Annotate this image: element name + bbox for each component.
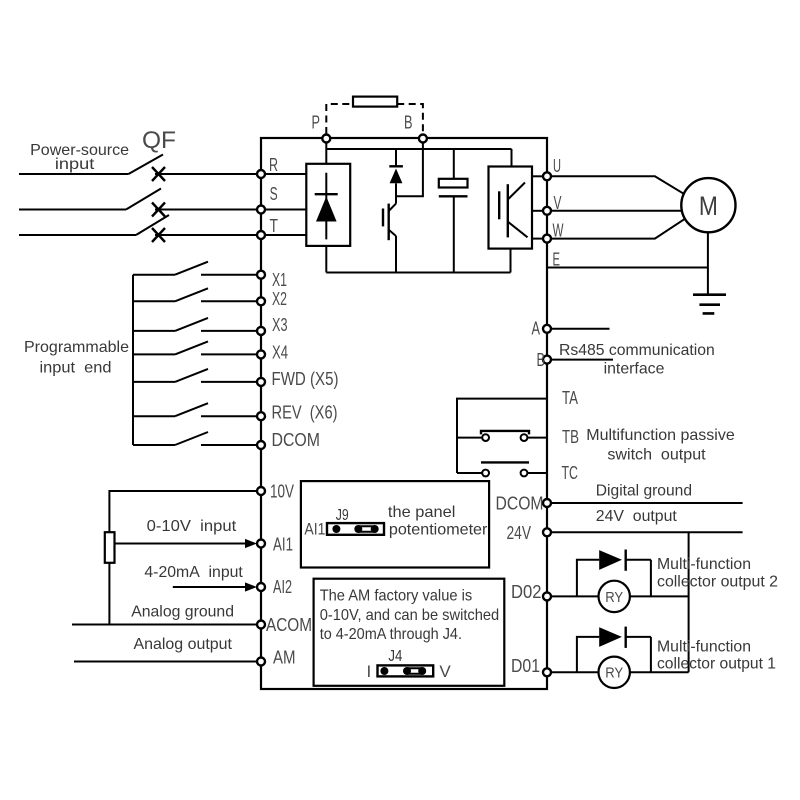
diode D01 cathode bar <box>625 627 627 648</box>
svg-text:Rs485 communication: Rs485 communication <box>559 342 715 359</box>
switch FWD <box>133 369 257 382</box>
terminal FWD <box>257 378 265 386</box>
inverter box U1 <box>489 167 533 249</box>
svg-text:X4: X4 <box>272 343 288 363</box>
main inverter enclosure box <box>261 138 547 689</box>
wire 24V output <box>551 531 743 533</box>
jumper J9 pin 1 <box>332 525 340 533</box>
svg-text:E: E <box>553 250 561 270</box>
svg-text:Programmable: Programmable <box>24 339 129 356</box>
wire motor to ground <box>707 232 709 294</box>
wire 24V drop to collector outputs <box>688 532 690 672</box>
terminal X3 <box>257 327 265 335</box>
svg-text:ACOM: ACOM <box>266 615 312 635</box>
relay RY 1 circle <box>599 657 630 688</box>
terminal U <box>543 172 551 180</box>
rectifier diode triangle <box>316 197 337 222</box>
svg-text:the panel: the panel <box>388 504 456 521</box>
wire DCOM digital ground <box>551 502 743 504</box>
arrowhead AI2 <box>245 582 257 591</box>
svg-text:J9: J9 <box>336 507 349 524</box>
terminal 24V <box>543 528 551 536</box>
terminal AM <box>257 658 265 666</box>
freewheel loop D02 <box>577 560 651 597</box>
wire TC left <box>457 472 482 474</box>
svg-text:TA: TA <box>562 388 578 408</box>
wire inverter to V <box>532 210 543 212</box>
svg-text:input end: input end <box>40 360 112 377</box>
svg-text:W: W <box>553 221 564 241</box>
capacitor positive plate <box>439 179 468 188</box>
contact TC circle left <box>482 470 489 477</box>
svg-text:D01: D01 <box>511 656 540 676</box>
DC- bus <box>326 272 510 274</box>
wire TB right <box>527 437 547 439</box>
switch X3 <box>133 318 257 331</box>
rectifier box <box>306 164 350 246</box>
svg-text:The AM factory value is: The AM factory value is <box>320 588 473 605</box>
breaker QF cross mark 3 <box>152 228 165 242</box>
svg-text:input: input <box>55 156 95 173</box>
svg-text:X3: X3 <box>272 315 288 335</box>
contact TC bar <box>481 461 529 463</box>
info box J9 panel potentiometer <box>301 481 489 567</box>
wire 3-phase input line 2 <box>19 209 126 211</box>
inverter top wire <box>511 149 513 167</box>
wire R to rectifier <box>265 173 306 175</box>
svg-text:FWD (X5): FWD (X5) <box>272 369 339 389</box>
svg-text:V: V <box>554 193 562 213</box>
wire D02 left <box>551 595 599 597</box>
svg-text:X1: X1 <box>272 270 287 290</box>
inverter IGBT body bar <box>507 184 509 237</box>
switch X4 <box>133 341 257 354</box>
svg-text:QF: QF <box>142 127 176 154</box>
wire brake IGBT emitter to DC- bus <box>395 236 397 273</box>
svg-text:24V output: 24V output <box>596 508 678 525</box>
wire TA <box>457 399 547 473</box>
diode D01 triangle <box>599 627 622 647</box>
transistor brake IGBT collector diagonal <box>389 204 396 211</box>
terminal DCOM right <box>543 499 551 507</box>
wire 3-phase input line 3 <box>19 234 136 236</box>
svg-text:4-20mA input: 4-20mA input <box>144 564 243 581</box>
wire TC right <box>527 472 547 474</box>
svg-text:V: V <box>439 662 451 681</box>
diode D02 triangle <box>599 550 622 570</box>
inverter IGBT collector diagonal <box>508 183 525 200</box>
potentiometer body <box>105 532 115 563</box>
contact TB circle right <box>521 434 528 441</box>
terminal A <box>543 325 551 333</box>
svg-text:0-10V, and can be switched: 0-10V, and can be switched <box>320 607 500 624</box>
jumper J9 pin 3 <box>371 525 379 533</box>
svg-text:switch output: switch output <box>607 447 706 464</box>
terminal T <box>257 231 265 239</box>
info box J4 AM note <box>314 579 505 686</box>
wire ACOM analog ground <box>72 624 257 626</box>
breaker QF cross mark 2 <box>152 203 165 217</box>
svg-text:Multi-function: Multi-function <box>657 639 751 656</box>
wire S input <box>155 209 257 211</box>
terminal B brake <box>419 135 427 143</box>
inverter bottom wire <box>510 249 512 273</box>
programmable input switch bus <box>132 275 134 445</box>
braking resistor dashed wire left <box>326 104 353 134</box>
jumper J4 link bars <box>407 668 422 673</box>
transistor brake IGBT emitter diagonal <box>389 230 396 236</box>
svg-text:R: R <box>269 155 278 175</box>
terminal 10V <box>257 487 265 495</box>
brake diode triangle <box>390 169 403 184</box>
svg-text:AI1: AI1 <box>273 535 293 555</box>
breaker QF blade 2 <box>126 189 161 210</box>
wire E earth <box>547 267 708 269</box>
capacitor top wire <box>453 149 455 179</box>
wire A rs485 <box>551 328 610 330</box>
wire inverter to W <box>532 238 543 240</box>
jumper J9 pin 2 <box>354 525 362 533</box>
svg-text:to 4-20mA through J4.: to 4-20mA through J4. <box>320 626 462 643</box>
diode D02 cathode bar <box>625 550 627 571</box>
transistor brake IGBT gate bar <box>382 209 384 227</box>
wire S to rectifier <box>265 209 306 211</box>
wire W to motor <box>551 219 685 239</box>
svg-text:Multi-function: Multi-function <box>657 556 751 573</box>
wire TB left <box>457 437 482 439</box>
svg-text:24V: 24V <box>507 523 532 543</box>
svg-text:Analog ground: Analog ground <box>131 604 234 621</box>
terminal AI2 <box>257 583 265 591</box>
terminal D01 <box>543 668 551 676</box>
wire brake diode to IGBT <box>395 183 397 203</box>
terminal P <box>322 135 330 143</box>
relay RY 2 circle <box>599 581 630 612</box>
svg-text:REV (X6): REV (X6) <box>272 403 338 423</box>
svg-text:AI1: AI1 <box>304 520 325 539</box>
wire AI2 analog input <box>173 586 247 588</box>
contact TB bar <box>481 431 529 435</box>
terminal AI1 <box>257 540 265 548</box>
svg-text:D02: D02 <box>511 582 542 602</box>
inverter IGBT emitter diagonal <box>508 222 528 238</box>
DC+ bus <box>326 148 511 150</box>
terminal D02 <box>543 592 551 600</box>
capacitor negative plate <box>439 195 468 197</box>
switch DCOM <box>133 432 257 445</box>
terminal V <box>543 207 551 215</box>
switch X1 <box>133 262 257 275</box>
terminal X1 <box>257 271 265 279</box>
transistor brake IGBT body bar <box>388 204 390 241</box>
inverter IGBT gate bar <box>498 191 500 219</box>
brake diode cathode bar <box>389 165 403 167</box>
terminal B rs485 <box>543 356 551 364</box>
breaker QF blade 3 <box>136 215 169 235</box>
svg-text:potentiometer: potentiometer <box>389 522 488 539</box>
svg-text:AM: AM <box>273 648 296 668</box>
wire D01 left <box>551 671 599 673</box>
svg-text:RY: RY <box>605 665 623 682</box>
braking resistor dashed wire right <box>397 104 423 134</box>
svg-text:J4: J4 <box>388 648 402 665</box>
wire T input <box>155 234 257 236</box>
contact TB circle left <box>482 434 489 441</box>
wire V to motor <box>551 210 682 212</box>
svg-text:Digital ground: Digital ground <box>596 483 692 500</box>
wire inverter to U <box>532 175 543 177</box>
wire U to motor <box>551 176 684 194</box>
wire D02 right <box>630 595 689 597</box>
brake diode wire from DC+ <box>395 149 397 166</box>
potentiometer 10V wire <box>109 491 257 532</box>
wire R input <box>155 173 257 175</box>
svg-text:Analog output: Analog output <box>133 636 232 653</box>
jumper J4 pin 3 <box>418 667 426 675</box>
wire rectifier to DC- bus <box>325 246 327 273</box>
svg-text:I: I <box>367 662 372 681</box>
switch REV <box>133 403 257 416</box>
contact TC circle right <box>521 470 528 477</box>
arrowhead AI1 <box>245 539 257 548</box>
svg-text:X2: X2 <box>272 289 287 309</box>
svg-text:AI2: AI2 <box>273 577 292 597</box>
wire D01 right <box>630 671 689 673</box>
potentiometer bottom wire <box>108 563 110 625</box>
svg-text:U: U <box>553 156 561 176</box>
svg-text:RY: RY <box>605 589 623 606</box>
svg-text:P: P <box>312 113 321 133</box>
wire 3-phase input line 1 <box>19 173 129 175</box>
svg-text:TC: TC <box>562 463 579 483</box>
ground symbol <box>693 295 726 314</box>
terminal R <box>257 170 265 178</box>
svg-text:collector output 1: collector output 1 <box>657 656 776 673</box>
jumper J9 body <box>327 523 384 535</box>
terminal X2 <box>257 297 265 305</box>
wire AM analog output <box>74 661 257 663</box>
capacitor bottom wire <box>453 196 455 272</box>
freewheel loop D01 <box>577 637 651 672</box>
jumper J9 link bars <box>358 526 374 531</box>
svg-text:interface: interface <box>604 361 665 378</box>
svg-text:DCOM: DCOM <box>496 494 544 514</box>
rectifier diode cathode bar <box>315 193 338 195</box>
motor M circle <box>681 178 735 232</box>
jumper J4 body <box>378 665 434 676</box>
svg-text:M: M <box>699 191 718 221</box>
jumper J4 pin 2 <box>403 667 411 675</box>
braking resistor <box>353 97 397 107</box>
terminal REV <box>257 412 265 420</box>
jumper J4 pin 1 <box>380 667 388 675</box>
breaker QF blade 1 <box>129 155 164 175</box>
terminal W <box>543 235 551 243</box>
svg-text:B: B <box>537 350 546 370</box>
svg-text:collector output 2: collector output 2 <box>657 574 778 591</box>
wire T to rectifier <box>265 234 306 236</box>
wire B rs485 <box>551 359 613 361</box>
svg-text:DCOM: DCOM <box>272 430 321 450</box>
svg-text:TB: TB <box>562 427 579 447</box>
switch X2 <box>133 288 257 301</box>
wire AI1 analog input <box>115 543 248 545</box>
svg-text:0-10V input: 0-10V input <box>147 518 237 535</box>
svg-text:B: B <box>404 113 413 133</box>
rectifier diode axis <box>325 173 327 240</box>
svg-text:A: A <box>532 319 541 339</box>
svg-text:Multifunction passive: Multifunction passive <box>586 427 735 444</box>
breaker QF cross mark 1 <box>152 167 165 181</box>
wire B to brake chopper <box>396 143 423 197</box>
terminal X4 <box>257 350 265 358</box>
svg-text:S: S <box>270 184 278 204</box>
svg-text:10V: 10V <box>270 482 294 502</box>
terminal S <box>257 206 265 214</box>
wire P to rectifier <box>325 143 327 164</box>
terminal ACOM <box>257 621 265 629</box>
terminal DCOM left <box>257 441 265 449</box>
svg-text:T: T <box>270 216 279 236</box>
